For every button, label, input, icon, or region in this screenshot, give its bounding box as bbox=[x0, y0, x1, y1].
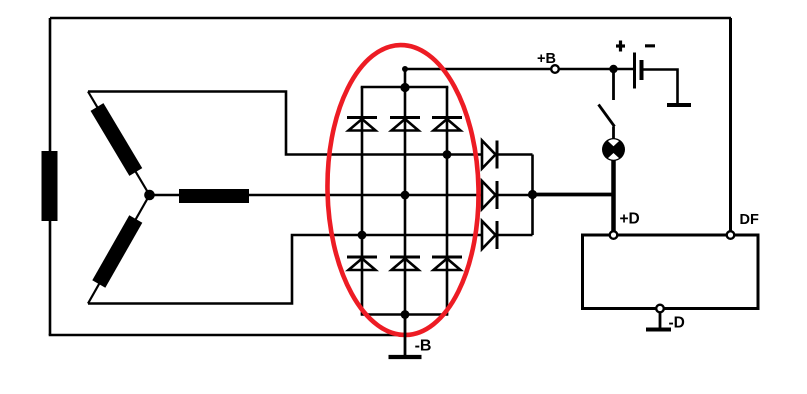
wire: drop from +B rail to switch bbox=[612, 69, 615, 100]
terminal +D bbox=[610, 231, 618, 239]
wire: trio output row 1 bbox=[497, 153, 533, 156]
wire: -D to ground bbox=[659, 312, 662, 329]
diode D2 (bridge upper middle) bbox=[390, 118, 420, 131]
wire: top border bus (field supply) bbox=[50, 17, 731, 20]
node: phase W junction on left column bbox=[358, 231, 367, 240]
wire: bridge to -B ground (over ellipse) bbox=[404, 315, 407, 357]
label - (battery polarity) bbox=[645, 44, 655, 47]
terminal +B bbox=[551, 65, 559, 73]
ground (-D) bbox=[646, 328, 671, 332]
terminal DF bbox=[727, 231, 735, 239]
ground (battery) bbox=[667, 103, 691, 107]
diode D6 (bridge lower right) bbox=[432, 257, 462, 270]
regulator A1 (voltage regulator box) bbox=[583, 235, 759, 309]
diode D7 (exciter trio, phase U) bbox=[482, 141, 497, 169]
battery GB1 positive plate bbox=[633, 53, 636, 89]
wire: battery junction to positive plate bbox=[614, 68, 635, 71]
svg-text:+B: +B bbox=[537, 51, 556, 67]
stator winding L2 bbox=[179, 189, 249, 203]
node: trio bus junction bbox=[528, 190, 537, 199]
svg-text:DF: DF bbox=[740, 212, 759, 228]
wire: phase W lead (diagonal) bbox=[88, 195, 150, 304]
diode D8 (exciter trio, phase V) bbox=[482, 181, 497, 209]
node: bridge bottom bus junction bbox=[401, 310, 410, 319]
svg-text:+D: +D bbox=[620, 211, 640, 228]
node: bridge +B tap junction bbox=[402, 66, 408, 72]
wire: phase V run to rectifier bbox=[150, 194, 483, 197]
wire: thick feed from trio to lamp node bbox=[533, 193, 614, 197]
diode D4 (bridge lower left) bbox=[347, 257, 377, 270]
wire: left border (field winding branch) bbox=[49, 18, 52, 335]
node: phase V junction on middle column bbox=[401, 191, 410, 200]
wire: bridge top bus bbox=[361, 86, 449, 89]
wire: bridge bottom bus bbox=[361, 313, 449, 316]
wire: trio output row 2 bbox=[497, 194, 533, 197]
node: battery junction on +B rail bbox=[609, 65, 617, 73]
field winding L4 (rotor) bbox=[42, 151, 58, 221]
wire: +B rail from bridge to battery bbox=[405, 68, 614, 71]
lamp HL1 (charge indicator) bbox=[601, 135, 626, 165]
wire: phase W run to rectifier bbox=[88, 235, 482, 304]
node: bridge top bus junction bbox=[400, 83, 409, 92]
svg-text:-D: -D bbox=[669, 315, 685, 332]
node: star point of stator bbox=[144, 190, 155, 201]
svg-text:-B: -B bbox=[415, 337, 432, 354]
wire: phase U run to rectifier bbox=[88, 92, 482, 155]
terminal -D bbox=[656, 305, 664, 313]
wire: bridge right column bbox=[446, 87, 449, 315]
diode D5 (bridge lower middle) bbox=[390, 257, 420, 270]
wire: bottom ground bus to -B bbox=[49, 334, 406, 337]
wire: phase U lead (diagonal) bbox=[88, 92, 150, 196]
stator winding L3 bbox=[99, 219, 136, 284]
label + (battery polarity) bbox=[616, 41, 625, 52]
wire: bridge left column bbox=[361, 87, 364, 315]
switch SA1 (ignition switch blade) bbox=[599, 105, 615, 127]
ground (-B) bbox=[389, 355, 422, 359]
wire: trio output row 3 bbox=[497, 234, 533, 237]
wire: bridge middle column bbox=[404, 69, 407, 315]
node: phase U junction on right column bbox=[443, 150, 452, 159]
diode D1 (bridge upper left) bbox=[347, 118, 377, 131]
stator winding L1 bbox=[97, 107, 136, 172]
wire: lamp to +D node (thick) bbox=[611, 160, 616, 235]
diode D9 (exciter trio, phase W) bbox=[482, 221, 497, 249]
wire: switch to lamp bbox=[612, 127, 615, 140]
wire: right border down to DF terminal bbox=[729, 18, 732, 234]
diode D3 (bridge upper right) bbox=[432, 118, 462, 131]
wire: trio output bus bbox=[531, 155, 534, 236]
wire: battery to ground bbox=[643, 70, 678, 105]
battery GB1 negative plate bbox=[640, 60, 644, 80]
highlight ellipse around rectifier (red) bbox=[325, 44, 482, 337]
